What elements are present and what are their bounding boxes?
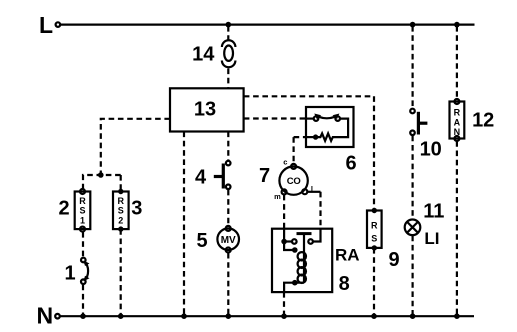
svg-text:S: S xyxy=(118,206,124,216)
svg-text:R: R xyxy=(118,196,125,206)
wire branch junction to RS1 xyxy=(83,175,121,189)
svg-text:LI: LI xyxy=(424,229,439,248)
wire 13 to N xyxy=(183,132,185,317)
wire L to RAN 12 xyxy=(456,26,458,99)
node A (branch junction RS1/RS2) xyxy=(98,172,104,178)
push-button switch S4 xyxy=(214,161,231,189)
control unit U13 (box) xyxy=(170,88,244,131)
wire RS 9 to N xyxy=(373,248,375,316)
fuse F 14 xyxy=(222,40,236,67)
wire start device 6 to compressor terminal c xyxy=(294,137,316,164)
node: N junction at RS2 xyxy=(118,313,124,319)
resistor RAN (component 12) xyxy=(450,99,465,141)
wire lamp 11 to N xyxy=(412,236,414,317)
svg-text:9: 9 xyxy=(388,249,399,271)
node: L junction at RAN 12 xyxy=(454,22,460,28)
svg-text:A: A xyxy=(454,118,461,128)
svg-text:14: 14 xyxy=(192,44,215,66)
svg-text:3: 3 xyxy=(131,198,142,220)
svg-text:1: 1 xyxy=(64,263,75,285)
net L (top supply rail) xyxy=(56,22,475,27)
svg-text:N: N xyxy=(37,303,54,329)
svg-text:2: 2 xyxy=(118,216,123,226)
svg-text:13: 13 xyxy=(194,99,216,121)
svg-text:12: 12 xyxy=(472,109,494,131)
wire L to fuse 14 xyxy=(227,26,229,42)
node: N junction at relay 8 xyxy=(281,313,287,319)
net N (bottom neutral rail) xyxy=(55,314,474,319)
svg-text:2: 2 xyxy=(58,198,69,220)
node: N junction at thermostat 1 xyxy=(80,313,86,319)
wire 13 to RS1/RS2 branch xyxy=(101,119,170,175)
lamp LI 11 xyxy=(405,220,421,236)
svg-text:R: R xyxy=(79,196,86,206)
wire 13 to switch 4 xyxy=(227,132,229,161)
svg-text:11: 11 xyxy=(423,201,444,223)
node: N junction at lamp 11 xyxy=(410,313,416,319)
wire 13 to RS 9 xyxy=(244,96,374,210)
svg-text:7: 7 xyxy=(259,165,270,187)
wire compressor m to relay 8 xyxy=(283,195,285,242)
wire switch 10 to lamp 11 xyxy=(412,136,414,219)
node: N junction at RS 9 xyxy=(371,313,377,319)
wire 13 to start device 6 xyxy=(244,117,306,119)
start relay box 8 xyxy=(272,229,332,292)
svg-text:S: S xyxy=(371,233,377,243)
svg-text:CO: CO xyxy=(287,176,301,187)
overload contact in 6 xyxy=(306,114,340,121)
resistor RS (component 9) xyxy=(367,208,382,251)
svg-text:R: R xyxy=(454,108,461,118)
node: L junction at switch 10 xyxy=(410,22,416,28)
wire fuse 14 to control unit 13 xyxy=(227,69,229,89)
svg-text:RA: RA xyxy=(335,246,360,265)
wire switch 4 to fan motor 5 xyxy=(227,190,229,226)
svg-text:S: S xyxy=(79,206,85,216)
fan motor MV 5 xyxy=(217,226,239,253)
resistor RS2 (component 3) xyxy=(113,189,129,232)
node: L junction at fuse 14 xyxy=(226,22,232,28)
wire RAN 12 to N xyxy=(456,141,458,316)
resistor RS1 (component 2) xyxy=(75,189,91,232)
compressor motor CO 7 xyxy=(279,164,307,195)
wire fan motor 5 to N xyxy=(227,253,229,316)
node: N junction at fan motor 5 xyxy=(226,313,232,319)
svg-text:L: L xyxy=(39,12,53,38)
wire L to switch 10 xyxy=(412,26,414,108)
relay coil in 8 xyxy=(284,242,306,293)
svg-text:MV: MV xyxy=(221,235,236,246)
wire RS1 to thermostat 1 xyxy=(82,232,84,257)
svg-text:1: 1 xyxy=(80,216,85,226)
wire branch junction to RS2 xyxy=(120,175,122,192)
thermostat switch 1 xyxy=(81,258,90,284)
svg-text:8: 8 xyxy=(339,273,350,295)
node: N junction at wire from 13 xyxy=(181,313,187,319)
push-button switch S10 xyxy=(410,109,427,135)
svg-text:10: 10 xyxy=(420,139,442,161)
wire relay 8 to N xyxy=(283,292,285,316)
svg-text:5: 5 xyxy=(196,230,207,252)
relay contact in 8 xyxy=(281,234,313,283)
svg-text:m: m xyxy=(274,192,281,201)
PTC resistor in 6 xyxy=(313,119,348,141)
svg-text:6: 6 xyxy=(345,153,356,175)
node: N junction at RAN 12 xyxy=(454,313,460,319)
svg-text:R: R xyxy=(371,221,378,231)
svg-text:c: c xyxy=(283,157,287,166)
wire RS2 to N xyxy=(120,229,122,316)
wire compressor l to relay 8 xyxy=(307,192,321,242)
start device box 6 (PTC + overload) xyxy=(306,107,354,147)
svg-text:4: 4 xyxy=(195,167,207,189)
wire thermostat 1 to N xyxy=(82,285,84,317)
